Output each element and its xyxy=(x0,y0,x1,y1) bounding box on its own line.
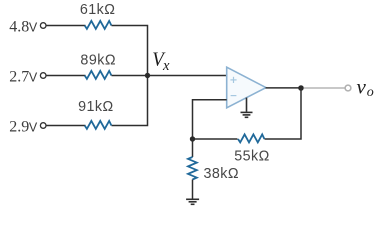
resistor R4 55k zigzag xyxy=(238,134,264,142)
svg-text:55kΩ: 55kΩ xyxy=(234,149,270,165)
node feedback junction dot xyxy=(190,136,195,141)
svg-text:89kΩ: 89kΩ xyxy=(80,52,116,68)
resistor R5 38k zigzag vertical xyxy=(188,157,197,180)
terminal circle row1 xyxy=(40,23,46,29)
wire row2 right to op-amp xyxy=(112,75,227,77)
svg-text:4.8V: 4.8V xyxy=(9,19,38,36)
wire row1 right + bus + wire row3 right xyxy=(112,26,148,126)
wire feedback left xyxy=(193,138,238,140)
wire down to 38k xyxy=(192,139,194,157)
svg-text:91kΩ: 91kΩ xyxy=(78,99,114,115)
wire inverting input xyxy=(193,100,227,139)
node output dot xyxy=(298,85,304,91)
resistor R1 61k zigzag xyxy=(85,21,112,29)
svg-text:38kΩ: 38kΩ xyxy=(204,166,240,182)
wire 38k to ground xyxy=(192,180,194,200)
op-amp minus input mark xyxy=(231,95,237,97)
wire gray to vo terminal xyxy=(304,87,345,89)
op-amp plus input mark xyxy=(230,77,236,83)
wire row1 left xyxy=(46,25,85,27)
terminal circle row2 xyxy=(40,73,46,79)
terminal circle row3 xyxy=(40,123,46,129)
wire row3 left xyxy=(46,125,85,127)
wire op-amp output xyxy=(266,87,302,89)
svg-text:x: x xyxy=(162,58,170,74)
node Vx dot xyxy=(145,73,150,78)
resistor R3 91k zigzag xyxy=(85,121,112,129)
svg-text:2.7V: 2.7V xyxy=(9,69,38,86)
svg-text:2.9V: 2.9V xyxy=(9,119,38,136)
ground under op-amp xyxy=(241,98,253,118)
resistor R2 89k zigzag xyxy=(85,71,112,79)
ground bottom xyxy=(186,199,199,204)
svg-text:o: o xyxy=(367,85,374,100)
wire row2 left xyxy=(46,75,85,77)
terminal circle vo xyxy=(345,85,351,91)
svg-text:v: v xyxy=(357,75,367,99)
svg-text:61kΩ: 61kΩ xyxy=(80,2,116,18)
wire output down to feedback xyxy=(265,88,302,139)
op-amp U1 triangle xyxy=(227,67,266,108)
